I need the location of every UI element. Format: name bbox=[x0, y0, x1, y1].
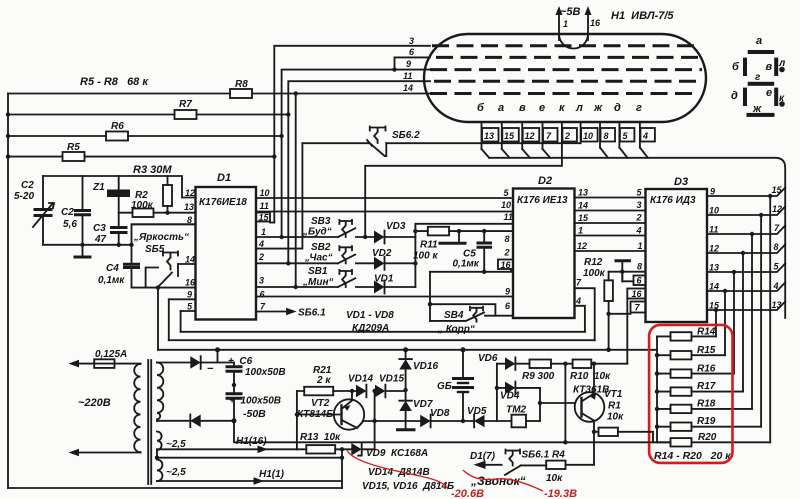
svg-text:9: 9 bbox=[187, 290, 192, 300]
svg-text:3: 3 bbox=[259, 276, 264, 286]
svg-text:Н1(1): Н1(1) bbox=[259, 469, 285, 480]
svg-text:10: 10 bbox=[501, 200, 511, 210]
resistor R12 bbox=[604, 272, 613, 350]
resistor R15 bbox=[657, 345, 725, 359]
node left bus dots bbox=[6, 112, 10, 116]
wire TM2 VD4 right vertical bbox=[539, 388, 541, 421]
capacitor C6a bbox=[226, 363, 243, 394]
svg-text:100х50В: 100х50В bbox=[245, 367, 286, 378]
svg-text:9: 9 bbox=[710, 187, 715, 197]
wire VD9 emitter riser bbox=[374, 391, 376, 449]
label anode letters bbox=[477, 102, 642, 114]
switch SB5 brightness bbox=[133, 232, 189, 288]
svg-text:5,6: 5,6 bbox=[63, 219, 77, 230]
resistor R11 bbox=[413, 227, 513, 262]
common bar at R12 bbox=[615, 261, 632, 282]
svg-text:10: 10 bbox=[709, 206, 719, 216]
svg-text:г: г bbox=[636, 102, 642, 114]
svg-text:R14 - R20 20 к: R14 - R20 20 к bbox=[654, 450, 731, 462]
svg-text:С4: С4 bbox=[106, 263, 119, 274]
battery G6 bbox=[437, 350, 474, 423]
wire bottom frame bbox=[8, 487, 342, 489]
svg-text:10: 10 bbox=[583, 131, 593, 141]
svg-text:-50В: -50В bbox=[243, 408, 266, 420]
wire SB5 bottom to pin16 bbox=[132, 287, 196, 289]
svg-text:R6: R6 bbox=[111, 121, 124, 132]
pin H1.7 stub and box bbox=[543, 122, 558, 149]
svg-text:VD4: VD4 bbox=[500, 391, 520, 402]
resistor R17 bbox=[657, 381, 743, 396]
capacitor C2 5,6 bbox=[74, 176, 91, 245]
svg-text:R5 - R8 68 к: R5 - R8 68 к bbox=[80, 76, 149, 88]
resistor R9 300 bbox=[522, 360, 573, 383]
svg-text:15: 15 bbox=[504, 131, 515, 141]
svg-text:2: 2 bbox=[636, 213, 642, 223]
diode rectifier top bbox=[157, 356, 234, 375]
filament arc bbox=[559, 34, 588, 49]
pin D1.6 wire to D2.9 bbox=[256, 290, 513, 300]
svg-text:8: 8 bbox=[505, 234, 510, 244]
svg-text:4: 4 bbox=[642, 131, 648, 141]
pin D3.10 wire riser and bus tag 12 bbox=[707, 204, 785, 427]
svg-text:~5В: ~5В bbox=[560, 6, 581, 18]
switch SB2 Chas bbox=[304, 242, 374, 264]
capacitor C6b bbox=[226, 383, 243, 421]
wire diagonal zh to bus bbox=[600, 148, 608, 158]
diode VD6 bbox=[478, 353, 530, 370]
svg-text:10: 10 bbox=[260, 188, 270, 198]
node emitter wire421 bbox=[372, 419, 376, 423]
wire oscillator top bbox=[43, 176, 196, 198]
wire rail3 to VD16 and G6 bbox=[461, 347, 466, 352]
svg-text:VT1: VT1 bbox=[604, 389, 623, 400]
svg-text:R9 300: R9 300 bbox=[522, 371, 555, 382]
svg-text:4: 4 bbox=[258, 239, 264, 249]
svg-text:100 к: 100 к bbox=[413, 251, 438, 262]
svg-text:VD15: VD15 bbox=[379, 374, 404, 385]
pin H1.1 filament arrow bbox=[556, 6, 569, 40]
resistor R1 10k bbox=[592, 401, 653, 443]
pin H1.11 wire bbox=[288, 71, 430, 263]
svg-text:в: в bbox=[766, 61, 773, 73]
pin D3.7 boxed bbox=[631, 302, 646, 313]
svg-text:D1(7): D1(7) bbox=[470, 451, 496, 462]
seven segment reference b bbox=[732, 58, 747, 76]
svg-text:10к: 10к bbox=[546, 473, 563, 484]
svg-text:К176ИЕ18: К176ИЕ18 bbox=[199, 197, 247, 208]
svg-text:-20.6В: -20.6В bbox=[451, 488, 484, 499]
wire R14-R20 left bus bbox=[656, 336, 658, 442]
diode VD5 bbox=[467, 406, 512, 427]
pin D1.12 bbox=[185, 188, 195, 198]
svg-text:3: 3 bbox=[409, 36, 414, 46]
wire diagonal d to bus bbox=[619, 148, 627, 158]
pin D2.1 wire to D3.4 bbox=[575, 226, 646, 236]
svg-text:R8: R8 bbox=[235, 79, 248, 90]
transistor VT1 KT361V bbox=[573, 364, 623, 465]
transformer secondary 3 filament bbox=[157, 460, 162, 482]
node filament tap join bbox=[157, 457, 342, 459]
svg-text:1: 1 bbox=[578, 226, 583, 236]
wire fuse to primary bbox=[115, 363, 141, 365]
ground common bar left bbox=[74, 245, 92, 257]
pin D3.8 bbox=[622, 262, 645, 282]
svg-text:13: 13 bbox=[484, 131, 494, 141]
svg-text:2: 2 bbox=[564, 131, 570, 141]
svg-text:SБ6.1: SБ6.1 bbox=[298, 308, 326, 319]
node SB5 pin16 junction bbox=[156, 285, 160, 289]
svg-text:VD2: VD2 bbox=[372, 248, 392, 259]
wire R8 line (grid 14) bbox=[8, 93, 430, 95]
wire display grid row1 dashed bbox=[432, 44, 700, 47]
svg-text:8: 8 bbox=[604, 131, 609, 141]
wire C4 column from pin8 bbox=[132, 224, 196, 245]
svg-text:VT2: VT2 bbox=[311, 398, 330, 409]
svg-text:11: 11 bbox=[260, 201, 269, 211]
svg-text:12: 12 bbox=[185, 188, 195, 198]
transformer secondary 1 bbox=[157, 363, 163, 422]
pin D3.15 wire riser and bus tag 13 bbox=[707, 300, 785, 336]
svg-text:SB2: SB2 bbox=[311, 242, 331, 253]
wire collector line 421 bbox=[364, 420, 421, 422]
svg-text:R20: R20 bbox=[698, 432, 717, 443]
wire R7 line bbox=[8, 114, 288, 116]
pin H1.5 stub and box bbox=[619, 122, 634, 148]
label VD1-VD8 KD209A bbox=[346, 310, 394, 334]
svg-text:100к: 100к bbox=[583, 268, 606, 279]
wire rail2 bbox=[169, 339, 595, 341]
wire R21 R13 base bus bbox=[296, 391, 298, 449]
resistor R5 bbox=[63, 142, 85, 161]
svg-text:13: 13 bbox=[184, 202, 194, 212]
svg-text:16: 16 bbox=[185, 278, 196, 288]
pin H1.13 stub and box bbox=[482, 122, 499, 149]
svg-text:„Час“: „Час“ bbox=[304, 253, 333, 264]
pin D3.9 wire riser and bus tag 15 bbox=[707, 185, 785, 442]
wire diagonal b to bus bbox=[482, 149, 490, 158]
wire VT1 base bbox=[540, 402, 574, 404]
diode rectifier bottom bbox=[157, 415, 237, 428]
svg-text:R13 10к: R13 10к bbox=[300, 432, 341, 443]
svg-text:13: 13 bbox=[709, 263, 719, 273]
svg-text:2: 2 bbox=[504, 248, 510, 258]
pin D2.7 wire to rail2 bbox=[575, 278, 595, 341]
svg-text:16: 16 bbox=[632, 289, 643, 299]
svg-text:С3: С3 bbox=[93, 223, 106, 234]
pin D2.15 wire to D3.2 bbox=[575, 213, 646, 223]
node R2 R3 junction bbox=[165, 211, 169, 215]
wire VD6 VD4 left vertical bbox=[496, 364, 498, 421]
wire display grid row4 dashed bbox=[434, 80, 700, 83]
svg-text:2 к: 2 к bbox=[316, 375, 331, 386]
red annotation curve left bbox=[347, 450, 448, 489]
svg-text:г: г bbox=[755, 72, 761, 83]
svg-text:д: д bbox=[731, 90, 738, 102]
svg-text:К176 ИЕ13: К176 ИЕ13 bbox=[517, 195, 568, 206]
svg-text:47: 47 bbox=[94, 234, 107, 245]
svg-text:R10 10к: R10 10к bbox=[570, 371, 611, 382]
seven segment reference zh bbox=[747, 103, 775, 117]
svg-text:„Мин“: „Мин“ bbox=[302, 277, 333, 288]
pin H1.16 filament arrow bbox=[585, 6, 602, 40]
resistor R10 10k bbox=[570, 360, 627, 383]
svg-text:12: 12 bbox=[709, 244, 719, 254]
svg-text:-19.3В: -19.3В bbox=[544, 488, 577, 499]
svg-text:14: 14 bbox=[578, 201, 588, 211]
svg-text:13: 13 bbox=[578, 188, 588, 198]
svg-text:в: в bbox=[519, 102, 526, 114]
svg-text:0,1мк: 0,1мк bbox=[453, 259, 480, 270]
svg-text:б: б bbox=[477, 102, 485, 114]
switch SB3 Bud bbox=[302, 216, 374, 239]
resistor R16 bbox=[657, 364, 734, 378]
pin D3.13 wire riser and bus tag 5 bbox=[707, 262, 785, 374]
svg-text:R4: R4 bbox=[552, 450, 565, 461]
label C2 5,6 bbox=[61, 207, 77, 230]
wire D1.5 drop to rail1 bbox=[180, 311, 182, 332]
capacitor C4 bbox=[123, 245, 140, 288]
pin D1.16 bbox=[185, 278, 196, 288]
resistor R8 bbox=[230, 79, 252, 98]
resistor R18 bbox=[657, 399, 752, 414]
wire rail1 bbox=[181, 331, 585, 333]
resistor R2 bbox=[119, 209, 196, 218]
diode VD2 bbox=[372, 248, 418, 270]
label C6 100x50V bbox=[228, 356, 286, 378]
svg-text:„Яркость“: „Яркость“ bbox=[133, 232, 189, 243]
svg-text:ж: ж bbox=[593, 102, 603, 114]
chip D3 K176ID3 bbox=[646, 176, 708, 322]
svg-text:1: 1 bbox=[563, 19, 568, 29]
wire filament H1(1) bbox=[157, 469, 342, 485]
resistor R21 bbox=[297, 387, 352, 396]
resistor R14 bbox=[657, 327, 716, 341]
svg-text:16: 16 bbox=[501, 260, 512, 270]
wire oscillator bottom bbox=[43, 241, 132, 245]
seven segment reference v bbox=[766, 58, 779, 76]
pin D3.12 wire riser and bus tag 8 bbox=[707, 242, 785, 392]
svg-text:R17: R17 bbox=[697, 381, 716, 392]
capacitor C3 bbox=[110, 228, 128, 245]
svg-text:„ Корр“: „ Корр“ bbox=[437, 324, 475, 335]
svg-text:0,1мк: 0,1мк bbox=[98, 275, 125, 286]
node base bbox=[538, 401, 542, 405]
svg-text:SБ6.2: SБ6.2 bbox=[392, 130, 420, 141]
seven segment reference e bbox=[766, 87, 778, 106]
display H1 IVL-7/5 envelope bbox=[424, 34, 706, 122]
diode VD8 bbox=[420, 408, 473, 427]
switch SB6.1 zvonok bbox=[505, 450, 550, 475]
wire diagonal g to bus bbox=[640, 148, 648, 158]
resistor R6 bbox=[106, 121, 128, 141]
svg-text:К176 ИД3: К176 ИД3 bbox=[650, 195, 696, 206]
pin D1.9 bbox=[169, 290, 196, 300]
svg-text:~2,5: ~2,5 bbox=[166, 439, 186, 450]
svg-text:Z1: Z1 bbox=[92, 182, 105, 193]
svg-text:8: 8 bbox=[637, 262, 642, 272]
svg-text:4: 4 bbox=[575, 296, 581, 306]
pin D1.5 bbox=[181, 302, 196, 312]
pin D1.15 boxed bbox=[256, 213, 274, 223]
wire SB4 to D2.6 bbox=[430, 304, 513, 316]
capacitor C2 trimmer bbox=[33, 176, 54, 241]
wire display grid row2 dashed bbox=[436, 56, 702, 59]
svg-text:9: 9 bbox=[406, 59, 411, 69]
label C3 47 bbox=[93, 223, 107, 245]
resistor R7 bbox=[175, 99, 197, 119]
wire VD9 node to frame bbox=[341, 449, 343, 488]
svg-text:VD6: VD6 bbox=[478, 353, 498, 364]
diode VD3 bbox=[374, 221, 415, 244]
wire R5 line bbox=[8, 156, 274, 158]
svg-text:Н1(16): Н1(16) bbox=[236, 436, 267, 447]
svg-text:R19: R19 bbox=[697, 416, 716, 427]
svg-text:0,125А: 0,125А bbox=[95, 349, 127, 360]
svg-text:КД209А: КД209А bbox=[352, 323, 389, 334]
svg-text:12: 12 bbox=[577, 241, 587, 251]
pin H1.8 stub and box bbox=[600, 122, 615, 148]
svg-text:Н1 ИВЛ-7/5: Н1 ИВЛ-7/5 bbox=[611, 10, 674, 22]
svg-text:VD8: VD8 bbox=[430, 408, 450, 419]
diode VD14 bbox=[348, 374, 373, 398]
switch SB6.2 bbox=[302, 127, 420, 157]
wire D1.9 drop to rail2 bbox=[168, 299, 170, 340]
seven segment reference d bbox=[731, 88, 747, 106]
transformer primary winding bbox=[134, 364, 140, 453]
svg-text:5-20: 5-20 bbox=[14, 191, 34, 202]
wire -50V rail down and right bbox=[234, 421, 671, 443]
svg-text:1: 1 bbox=[261, 227, 266, 237]
wire R12 top to bar node bbox=[609, 271, 623, 273]
pin H1.12 stub and box bbox=[522, 122, 539, 149]
svg-text:−: − bbox=[207, 363, 214, 375]
svg-text:GБ: GБ bbox=[437, 381, 452, 392]
wire display grid row5 dashed bbox=[430, 92, 698, 95]
chip D1 K176IE18 bbox=[196, 172, 257, 320]
svg-text:С2: С2 bbox=[21, 180, 34, 191]
pin D2.4 wire to rail1 bbox=[575, 296, 585, 332]
pin D1.1 wire to SB3 bbox=[256, 227, 338, 239]
svg-text:R5: R5 bbox=[67, 142, 80, 153]
red annotation curve right bbox=[463, 470, 543, 491]
diode VD7 bbox=[396, 390, 433, 430]
red box around R14-R20 bbox=[649, 325, 732, 463]
transistor VT2 KT814B bbox=[295, 389, 365, 430]
pin D3.16 boxed bbox=[627, 289, 645, 364]
wire R12 bottom to D3.7 bbox=[609, 313, 631, 315]
wire diagonal v to bus bbox=[522, 149, 530, 158]
svg-text:11: 11 bbox=[403, 71, 412, 81]
diode VD1 bbox=[374, 274, 415, 294]
diode VD4 bbox=[495, 382, 540, 402]
resistor R19 bbox=[657, 416, 761, 431]
seven segment reference dot l bbox=[778, 58, 786, 72]
pin H1.6 wire bbox=[395, 47, 431, 70]
diode VD9 zener bbox=[340, 443, 428, 459]
svg-text:R7: R7 bbox=[179, 99, 192, 110]
svg-text:е: е bbox=[766, 87, 772, 99]
wire secondary tap bbox=[156, 450, 158, 460]
pin D2.12 wire to D3.1 bbox=[575, 241, 646, 251]
resistor R4 bbox=[546, 461, 594, 484]
seven segment reference g bbox=[748, 72, 775, 86]
svg-text:12: 12 bbox=[772, 204, 782, 214]
svg-text:D1: D1 bbox=[217, 172, 231, 184]
svg-text:е: е bbox=[539, 102, 545, 114]
diode VD16 bbox=[399, 347, 438, 392]
svg-text:R11: R11 bbox=[420, 240, 438, 251]
transformer core bbox=[148, 360, 151, 484]
svg-text:R16: R16 bbox=[697, 364, 716, 375]
svg-text:D2: D2 bbox=[538, 175, 552, 187]
svg-text:14: 14 bbox=[403, 83, 413, 93]
svg-text:SB4: SB4 bbox=[444, 310, 464, 321]
pin D1.11 wire to D2.10 bbox=[256, 201, 513, 212]
svg-text:R18: R18 bbox=[697, 399, 716, 410]
resistor R20 bbox=[657, 432, 770, 447]
pin D1.4 wire to SB6.2 riser bbox=[256, 143, 302, 249]
svg-text:VD16: VD16 bbox=[413, 361, 438, 372]
pin D3.14 wire riser and bus tag 4 bbox=[707, 281, 785, 355]
wire mains bottom with arrow bbox=[69, 449, 141, 457]
buzzer TM2 bbox=[506, 405, 540, 428]
svg-text:VD14: VD14 bbox=[348, 374, 373, 385]
pin D1.14 bbox=[178, 255, 196, 265]
pin D1.10 wire to D2.5 bbox=[256, 188, 513, 198]
diode VD15 bbox=[372, 374, 405, 398]
svg-text:1: 1 bbox=[638, 241, 643, 251]
node left bus dots bbox=[655, 353, 659, 429]
svg-text:л: л bbox=[575, 102, 583, 114]
svg-text:9: 9 bbox=[505, 287, 510, 297]
svg-text:„Буд“: „Буд“ bbox=[302, 227, 332, 238]
pin H1.10 stub and box bbox=[581, 122, 598, 143]
svg-text:VD3: VD3 bbox=[386, 221, 406, 232]
fuse 0,125A bbox=[94, 359, 114, 368]
svg-text:SБ5: SБ5 bbox=[145, 244, 165, 255]
wire l line to SB6.2 bbox=[386, 142, 580, 144]
pin H1.14 wire joins R8 line bbox=[296, 83, 413, 287]
wire mains top with arrow bbox=[69, 360, 95, 368]
svg-text:SB1: SB1 bbox=[308, 266, 328, 277]
wire diagonal e to bus bbox=[543, 149, 551, 158]
svg-text:14: 14 bbox=[709, 282, 719, 292]
seven segment reference dot k bbox=[779, 93, 785, 107]
svg-text:SB3: SB3 bbox=[311, 216, 331, 227]
wire rail3 PSU drop bbox=[217, 350, 219, 363]
capacitor C5 bbox=[453, 229, 493, 274]
wire segment bus top bbox=[489, 158, 785, 318]
common bar at R11 bbox=[439, 229, 467, 243]
svg-text:д: д bbox=[614, 102, 621, 114]
pin D1.2 wire to SB2 bbox=[256, 252, 338, 265]
wire k line to SB3 node bbox=[365, 142, 562, 238]
pin D1.13 bbox=[184, 202, 194, 212]
resistor R3 bbox=[163, 176, 172, 213]
transformer secondary 2 filament bbox=[157, 432, 162, 450]
svg-text:VD1 - VD8: VD1 - VD8 bbox=[346, 310, 394, 321]
svg-text:12: 12 bbox=[525, 131, 535, 141]
svg-text:16: 16 bbox=[590, 18, 601, 28]
pin D2.14 wire to D3.3 bbox=[575, 201, 646, 211]
svg-text:14: 14 bbox=[185, 255, 195, 265]
svg-text:R15: R15 bbox=[697, 345, 716, 356]
switch SB4 Korr bbox=[428, 302, 496, 335]
svg-text:R3 30М: R3 30М bbox=[133, 164, 172, 176]
node R12 bottom junction bbox=[606, 312, 610, 316]
wire D2.16 line bbox=[430, 269, 511, 272]
label C4 0,1mk bbox=[98, 263, 125, 286]
